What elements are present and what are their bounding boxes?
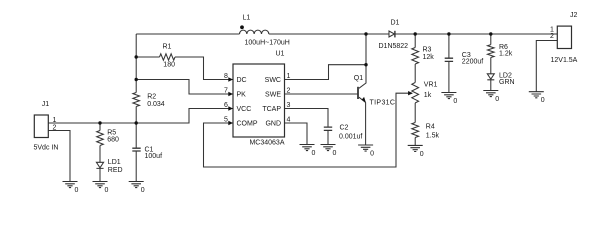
svg-text:0: 0 <box>541 97 545 104</box>
svg-text:0: 0 <box>453 98 457 105</box>
svg-text:SWE: SWE <box>265 92 281 99</box>
svg-text:C2: C2 <box>340 125 349 132</box>
svg-text:5Vdc IN: 5Vdc IN <box>34 145 59 152</box>
svg-text:1: 1 <box>287 73 291 80</box>
svg-text:R3: R3 <box>423 47 432 54</box>
svg-text:0.001uf: 0.001uf <box>339 134 362 141</box>
svg-text:Q1: Q1 <box>354 75 363 82</box>
svg-text:MC34063A: MC34063A <box>249 140 284 147</box>
svg-text:0.034: 0.034 <box>147 101 165 108</box>
svg-text:TCAP: TCAP <box>262 106 281 113</box>
svg-text:100uf: 100uf <box>145 153 163 160</box>
svg-text:7: 7 <box>224 88 228 95</box>
svg-text:GRN: GRN <box>499 79 515 86</box>
svg-text:DC: DC <box>237 77 247 84</box>
svg-text:0: 0 <box>420 151 424 158</box>
svg-text:100uH~170uH: 100uH~170uH <box>245 40 290 47</box>
svg-text:U1: U1 <box>276 51 285 58</box>
svg-text:0: 0 <box>370 151 374 158</box>
svg-text:6: 6 <box>224 102 228 109</box>
svg-text:D1: D1 <box>391 20 400 27</box>
svg-text:D1N5822: D1N5822 <box>379 43 409 50</box>
svg-text:680: 680 <box>107 137 119 144</box>
svg-text:1: 1 <box>53 117 57 124</box>
svg-text:0: 0 <box>105 187 109 194</box>
svg-text:0: 0 <box>495 96 499 103</box>
svg-text:0: 0 <box>333 150 337 157</box>
svg-text:J2: J2 <box>570 12 578 19</box>
svg-text:5: 5 <box>224 117 228 124</box>
svg-text:8: 8 <box>224 73 228 80</box>
svg-text:12k: 12k <box>423 54 435 61</box>
svg-text:R1: R1 <box>163 44 172 51</box>
svg-text:1.5k: 1.5k <box>426 132 440 139</box>
svg-text:PK: PK <box>237 92 247 99</box>
svg-text:180: 180 <box>163 61 175 68</box>
svg-text:VR1: VR1 <box>424 82 438 89</box>
svg-text:1.2k: 1.2k <box>499 51 513 58</box>
svg-text:VCC: VCC <box>237 106 252 113</box>
svg-text:0: 0 <box>141 187 145 194</box>
svg-text:GND: GND <box>265 121 281 128</box>
svg-text:1k: 1k <box>424 92 432 99</box>
svg-text:L1: L1 <box>243 15 251 22</box>
svg-text:2: 2 <box>287 88 291 95</box>
svg-text:2: 2 <box>550 33 554 40</box>
svg-text:R5: R5 <box>107 130 116 137</box>
svg-text:J1: J1 <box>42 101 50 108</box>
svg-text:12V1.5A: 12V1.5A <box>551 57 578 64</box>
svg-text:R2: R2 <box>147 94 156 101</box>
svg-text:0: 0 <box>75 187 79 194</box>
svg-text:R4: R4 <box>426 124 435 131</box>
svg-text:SWC: SWC <box>265 77 281 84</box>
svg-text:COMP: COMP <box>237 121 258 128</box>
svg-text:TIP31C: TIP31C <box>370 100 396 107</box>
svg-text:LD1: LD1 <box>108 159 121 166</box>
svg-text:3: 3 <box>287 102 291 109</box>
svg-text:2: 2 <box>53 125 57 132</box>
svg-text:4: 4 <box>287 117 291 124</box>
svg-text:0: 0 <box>312 150 316 157</box>
svg-text:2200uf: 2200uf <box>462 59 483 66</box>
svg-text:RED: RED <box>108 167 123 174</box>
